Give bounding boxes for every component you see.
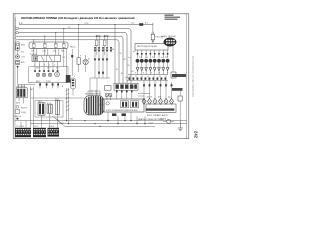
distributor top stubs	[88, 90, 100, 96]
resistor box right	[171, 72, 176, 78]
svg-text:30: 30	[141, 76, 143, 78]
svg-text:№1: №1	[128, 56, 131, 59]
sensor assembly outline	[35, 101, 63, 118]
terminal squares under columns	[98, 72, 104, 74]
svg-text:IG1: IG1	[21, 51, 24, 53]
ECU box	[104, 99, 144, 112]
svg-text:ДПДЗ: ДПДЗ	[46, 81, 51, 83]
drop line labels	[112, 49, 168, 78]
svg-text:ДПЗ: ДПЗ	[55, 98, 58, 100]
wire drop to junction box	[114, 25, 116, 84]
svg-text:AM1: AM1	[21, 44, 25, 47]
ISC motor	[55, 72, 60, 77]
svg-text:ЛАМПА: ЛАМПА	[160, 118, 167, 121]
svg-text:Е01: Е01	[61, 123, 64, 125]
svg-text:ДИАГН. РАЗЪЕМ: ДИАГН. РАЗЪЕМ	[161, 35, 176, 38]
injector common rail wire	[128, 74, 168, 76]
svg-text:Система впрыска топлива и упра: Система впрыска топлива и управления	[191, 56, 193, 98]
svg-text:КАТ: КАТ	[30, 88, 33, 91]
svg-text:4: 4	[49, 64, 50, 66]
VSV solenoid 1	[36, 73, 40, 77]
wire stubs into runs	[67, 116, 138, 124]
connector block B2	[33, 128, 46, 137]
VSV solenoid 3	[48, 73, 52, 77]
airflow meter	[47, 105, 53, 114]
svg-text:1: 1	[34, 64, 35, 66]
svg-text:ст: ст	[102, 45, 104, 47]
svg-text:д: д	[167, 72, 168, 74]
connector labels	[16, 126, 54, 128]
svg-text:МАССА: МАССА	[14, 115, 21, 118]
hanging terminals	[39, 83, 59, 85]
svg-text:40: 40	[147, 76, 149, 78]
connector tail wire	[72, 89, 74, 96]
fuse 3 in J/B	[55, 43, 58, 47]
relay divider	[46, 55, 48, 61]
injector lower bus	[127, 80, 168, 82]
label strip right	[172, 74, 186, 77]
aux vertical wire	[71, 49, 73, 76]
noise filter box	[15, 110, 20, 113]
crossing wire	[29, 66, 68, 68]
wire	[17, 50, 19, 54]
resistor right column	[178, 96, 182, 101]
sensor connector boxes center-left	[38, 103, 45, 116]
ECU connector blocks bottom	[15, 128, 59, 137]
svg-text:16 E02: 16 E02	[49, 126, 55, 128]
wires bus to J/B	[33, 40, 35, 44]
injector column terminal marks	[137, 53, 169, 55]
wire right column down	[172, 46, 174, 72]
svg-text:2: 2	[39, 64, 40, 66]
relay contact 1	[41, 56, 44, 61]
svg-text:22 16 E01: 22 16 E01	[16, 126, 24, 128]
svg-text:№3: №3	[145, 56, 148, 59]
svg-text:д: д	[151, 72, 152, 74]
assembly box right edge	[67, 67, 69, 83]
fuse 4 in J/B	[63, 43, 66, 47]
check connector arrows row2	[94, 59, 109, 62]
svg-text:д: д	[143, 72, 144, 74]
bus tap junction dots	[33, 24, 115, 40]
wires J/B to relay	[33, 47, 35, 55]
svg-text:д: д	[135, 72, 136, 74]
inline connector on aux wire	[71, 55, 73, 57]
bottom wire runs	[15, 120, 187, 122]
middle fuse pair 1	[96, 35, 98, 37]
check connector arrows top-center	[94, 47, 113, 52]
relay block with cells	[114, 83, 138, 90]
connector block B1	[15, 128, 31, 137]
pump resistor	[77, 58, 80, 64]
links relay block to sensor columns	[138, 92, 150, 94]
svg-text:д: д	[159, 72, 160, 74]
VSV solenoid 2	[42, 73, 46, 77]
svg-text:Е02: Е02	[70, 119, 73, 121]
connector block B3	[48, 128, 60, 137]
wire bus L3	[19, 33, 128, 84]
wire down from battery	[17, 68, 19, 85]
sensor diamond row	[142, 98, 174, 104]
svg-text:РАСПРЕДЕЛИТЕЛЬН.: РАСПРЕДЕЛИТЕЛЬН.	[137, 45, 158, 48]
small box above distributor	[105, 86, 111, 91]
EFI main fuse	[151, 34, 154, 40]
svg-text:СТАРТ: СТАРТ	[148, 122, 153, 125]
relay block to ECU wires	[117, 92, 132, 99]
relay pins down	[34, 62, 36, 71]
caption strip	[146, 108, 175, 110]
connector oval small	[71, 78, 76, 89]
svg-text:242: 242	[194, 131, 199, 139]
fusible link	[17, 47, 19, 49]
inline connector on L1	[139, 23, 143, 26]
svg-text:Е1: Е1	[116, 69, 118, 71]
svg-text:БЛОК УПРАВЛ. АКПП: БЛОК УПРАВЛ. АКПП	[147, 114, 168, 117]
wires around pump	[78, 25, 80, 58]
svg-text:ФИЛЬТР: ФИЛЬТР	[21, 106, 29, 109]
svg-text:22: 22	[105, 96, 107, 98]
border frame outer	[13, 14, 189, 139]
diagnostic connector oval	[164, 38, 176, 46]
svg-text:БЛОК УПРАВЛЕНИЯ ДВИГАТЕЛЕМ: БЛОК УПРАВЛЕНИЯ ДВИГАТЕЛЕМ	[106, 109, 138, 112]
svg-text:В+: В+	[21, 23, 23, 25]
svg-text:КАТУШКИ: КАТУШКИ	[16, 85, 25, 88]
injector columns	[138, 50, 168, 58]
check valve bottom right	[167, 119, 171, 123]
wire from switch column to igniter	[18, 84, 35, 86]
fuse 1 in J/B	[33, 43, 36, 47]
svg-text:№10: №10	[125, 76, 129, 79]
svg-text:ДАТЧ: ДАТЧ	[36, 80, 40, 83]
main multi-pin box A (injector feed)	[135, 44, 168, 50]
svg-text:26 12: 26 12	[34, 126, 39, 128]
svg-text:ШУМ: ШУМ	[16, 102, 21, 104]
note block top-right	[165, 15, 181, 20]
wire bus L4	[16, 36, 123, 83]
svg-text:2Е: 2Е	[112, 49, 114, 51]
distributor (shielded)	[84, 96, 104, 116]
svg-text:РАСПРЕДЕЛИТЕЛЬ: РАСПРЕДЕЛИТЕЛЬ	[85, 93, 102, 96]
battery	[16, 60, 20, 64]
svg-text:№5: №5	[161, 56, 164, 59]
svg-text:ST1: ST1	[22, 57, 25, 59]
slant fan wires	[52, 116, 59, 121]
fuse 2 in J/B	[44, 43, 47, 47]
wire bus L2	[19, 29, 132, 84]
ECU internal circle	[106, 102, 109, 105]
svg-text:А-3: А-3	[145, 22, 148, 25]
terminal row mid-right	[129, 77, 167, 79]
shielded cable hatch	[66, 88, 69, 116]
main EFI relay box	[32, 55, 61, 61]
ECU sub relay 1	[121, 101, 129, 108]
vertical wires center	[95, 53, 107, 71]
terminal squares row 2	[143, 84, 172, 86]
node B+ tick	[19, 22, 21, 24]
key switch circle	[16, 55, 20, 59]
svg-text:1Е: 1Е	[120, 53, 122, 55]
throttle sensor	[56, 100, 60, 115]
wire manifold left	[29, 82, 69, 84]
ignition switch contact circle	[16, 43, 19, 46]
relay coil	[34, 56, 38, 60]
svg-text:23: 23	[110, 96, 112, 98]
wires from igniter area to ECU	[62, 97, 84, 99]
ignition switch assembly box	[16, 42, 20, 51]
relay contact 2	[49, 56, 52, 61]
svg-text:10: 10	[129, 76, 131, 78]
border frame right inner line	[186, 14, 188, 139]
svg-text:2.0: 2.0	[68, 27, 70, 29]
middle fuse pair 2	[104, 35, 106, 37]
label strip right 2	[172, 88, 183, 91]
svg-text:20: 20	[135, 76, 137, 78]
crossed terminals	[106, 94, 112, 97]
ground dot	[16, 118, 18, 120]
border frame left inner line	[14, 14, 16, 139]
svg-text:5: 5	[54, 64, 55, 66]
second control box	[146, 104, 176, 112]
svg-text:НАСОС: НАСОС	[70, 46, 77, 49]
ECU pins below	[112, 113, 126, 116]
pin labels under J/B	[31, 50, 65, 53]
svg-text:50: 50	[153, 76, 155, 78]
svg-text:3: 3	[44, 64, 45, 66]
svg-text:60: 60	[159, 76, 161, 78]
svg-text:Е2: Е2	[121, 73, 123, 75]
svg-text:70: 70	[165, 76, 167, 78]
small circle left	[16, 105, 19, 108]
igniter unit	[16, 88, 27, 98]
wires ECU to bottom	[107, 112, 109, 121]
junction block J/B rounded box	[29, 42, 68, 49]
ground symbol bottom right	[178, 121, 183, 131]
svg-text:ст: ст	[94, 45, 96, 47]
wire igniter down	[18, 98, 20, 101]
fuse terminal circles in J/B	[33, 43, 64, 44]
ECU sub relay 2	[131, 101, 139, 108]
dark component left-bottom of center	[66, 75, 71, 83]
wire pump columns to lower area	[90, 70, 110, 96]
svg-text:М.РЕЛЕ: М.РЕЛЕ	[30, 54, 37, 56]
misc tiny labels	[16, 23, 171, 125]
long vertical wire center	[66, 48, 68, 75]
ground lug	[17, 66, 19, 68]
injector lower wires	[138, 63, 168, 68]
labels near switch	[21, 44, 25, 64]
wires down-left area	[30, 87, 32, 128]
junction dots	[107, 120, 145, 124]
wire bus L5	[16, 40, 119, 83]
svg-text:А-1: А-1	[132, 22, 135, 25]
injector solenoid row	[136, 59, 170, 63]
battery terminal circle 1	[16, 27, 19, 30]
battery terminal circle 2	[16, 31, 19, 34]
svg-text:ДТОЖ: ДТОЖ	[147, 97, 152, 99]
svg-text:СИСТЕМА ВПРЫСКА ТОПЛИВА (1UZ-F: СИСТЕМА ВПРЫСКА ТОПЛИВА (1UZ-FE) модели …	[21, 17, 135, 20]
sensor columns right	[144, 80, 172, 99]
drops from sensors to ECU connectors	[21, 113, 58, 128]
wire bus L1	[20, 24, 153, 26]
diode row (injector)	[136, 68, 169, 71]
fuel pump	[83, 59, 88, 64]
relay block pins	[116, 91, 133, 93]
terminal squares row	[34, 70, 58, 72]
